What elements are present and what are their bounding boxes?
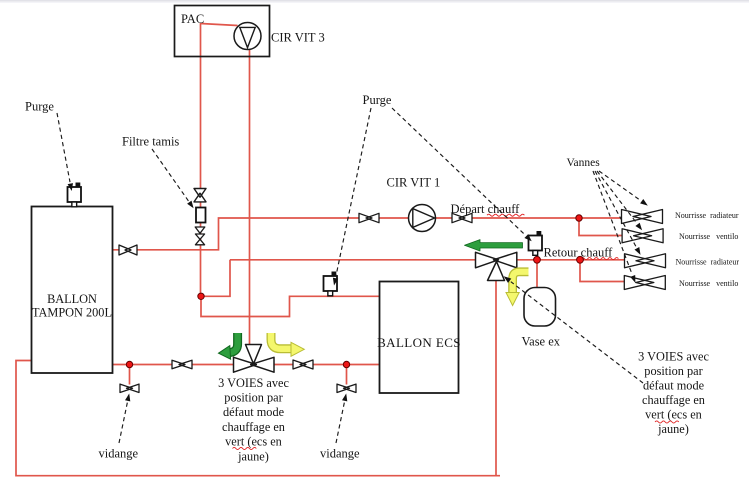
leader vannes 2: [597, 171, 642, 230]
svg-text:3 VOIES avec: 3 VOIES avec: [218, 376, 289, 390]
PAC box: [175, 6, 270, 57]
svg-text:Nourrisse ventilo: Nourrisse ventilo: [679, 232, 738, 241]
junction dot depart line: [576, 215, 582, 221]
valve tank outlet: [119, 245, 137, 255]
junction dot before ECS: [343, 361, 349, 367]
right distribution valve 3: [625, 254, 666, 268]
tank BALLON TAMPON 200L: [32, 207, 113, 374]
svg-text:défaut mode: défaut mode: [643, 379, 705, 393]
green bent arrow on lower 3-way: [219, 333, 238, 359]
pump CIR VIT 3: [234, 23, 261, 50]
valve before pump CIR VIT 1: [359, 213, 379, 222]
svg-text:vert (ecs en: vert (ecs en: [645, 408, 702, 422]
svg-text:vert (ecs en: vert (ecs en: [225, 435, 282, 449]
svg-text:position par: position par: [224, 391, 282, 405]
right distribution valve 1: [622, 210, 663, 224]
purge device near ECS line: [324, 272, 338, 296]
wire: vase expansion drop: [536, 260, 538, 288]
svg-text:Vase ex: Vase ex: [522, 335, 561, 349]
wire: branch to Nourrisse ventilo 2: [580, 260, 624, 282]
leader purge middle to ECS-line purge: [333, 108, 371, 286]
green arrow (heating flow) on upper 3-way: [465, 240, 523, 251]
BALLON ECS tank: [380, 282, 459, 394]
svg-text:Nourrisse radiateur: Nourrisse radiateur: [675, 211, 739, 220]
leader vannes 4: [593, 171, 635, 283]
svg-text:Vannes: Vannes: [567, 157, 601, 169]
leader purge top-left: [57, 113, 73, 191]
svg-text:vidange: vidange: [320, 447, 360, 461]
valve depart chauff: [452, 213, 472, 222]
right distribution valve 4: [624, 276, 665, 290]
svg-text:3 VOIES avec: 3 VOIES avec: [638, 350, 709, 364]
leader vidange left: [119, 394, 130, 444]
svg-text:TAMPON 200L: TAMPON 200L: [32, 306, 112, 320]
vidange valve left: [120, 384, 139, 392]
wire: left pipe from PAC down through filter to node: [200, 23, 202, 296]
wire: vidange stub right: [346, 365, 348, 385]
svg-text:CIR VIT 1: CIR VIT 1: [387, 176, 441, 190]
svg-text:jaune): jaune): [237, 449, 269, 463]
wire: lower 3-way to BALLON ECS lower port: [274, 364, 380, 366]
svg-text:Nourrisse radiateur: Nourrisse radiateur: [676, 257, 740, 266]
text block 3 VOIES (bottom center): [218, 376, 289, 464]
yellow arrow (ecs) on upper 3-way: [506, 272, 529, 306]
vase expansion: [524, 288, 556, 327]
svg-text:chauffage en: chauffage en: [222, 420, 285, 434]
svg-text:jaune): jaune): [657, 422, 689, 436]
valve above filter: [194, 189, 206, 202]
svg-text:BALLON ECS: BALLON ECS: [377, 335, 461, 350]
wire: pump CIR VIT 3 down pipe to lower 3-way top: [249, 50, 251, 345]
leader vidange right: [336, 394, 347, 444]
yellow bent arrow on lower 3-way: [271, 333, 304, 356]
wire: retour chauff right segment: [517, 259, 625, 261]
wire: node to retour jog: [201, 260, 230, 297]
svg-text:Nourrisse ventilo: Nourrisse ventilo: [679, 279, 738, 288]
junction dot retour at purge: [534, 256, 541, 263]
svg-text:Purge: Purge: [25, 100, 54, 114]
wire: upper 3-way bottom drop to floor line: [495, 281, 497, 476]
spellcheck wavy under chauff: [487, 214, 524, 216]
svg-text:Purge: Purge: [363, 93, 392, 107]
svg-text:PAC: PAC: [181, 12, 204, 26]
valve tank bottom line: [172, 360, 192, 369]
filter (filtre tamis): [196, 208, 206, 223]
svg-text:CIR VIT 3: CIR VIT 3: [271, 31, 325, 45]
leader purge middle to retour purge: [392, 108, 532, 241]
upper 3-way valve (3 VOIES): [476, 252, 517, 280]
vidange valve right: [337, 384, 356, 392]
svg-text:position par: position par: [644, 364, 702, 378]
check valve below filter: [195, 227, 205, 245]
wire: node down and over to BALLON ECS upper port: [201, 296, 380, 316]
leader filtre tamis: [152, 149, 194, 208]
right distribution valve 2: [622, 229, 663, 243]
svg-text:Filtre tamis: Filtre tamis: [122, 135, 179, 149]
wire: tank outlet to depart chauff line: [113, 218, 622, 250]
wire: retour chauff left segment: [230, 259, 476, 261]
svg-text:BALLON: BALLON: [47, 292, 97, 306]
junction node left: [198, 293, 204, 299]
svg-text:défaut mode: défaut mode: [223, 405, 285, 419]
junction dot tank bottom: [126, 361, 132, 367]
wire: floor return loop to tank left: [16, 361, 500, 476]
text block 3 VOIES (right): [638, 350, 709, 437]
valve right of lower 3-way: [293, 360, 313, 369]
leader vannes 3: [595, 171, 641, 255]
svg-text:chauffage en: chauffage en: [642, 393, 705, 407]
lower 3-way valve (3 VOIES): [234, 345, 275, 373]
purge device on tank: [68, 183, 82, 207]
purge device near retour chauff: [529, 231, 543, 255]
wire: vidange stub left: [129, 365, 131, 385]
pump CIR VIT 1: [409, 205, 436, 232]
leader vannes 1: [599, 171, 648, 206]
wire: branch to Nourrisse ventilo 1: [579, 218, 622, 236]
wire: PAC internal horizontal to pump: [201, 24, 238, 26]
wire: tank bottom to lower 3-way: [113, 364, 234, 366]
junction dot retour right: [577, 256, 584, 263]
svg-text:vidange: vidange: [99, 447, 139, 461]
leader 3 voies right text to upper 3-way: [504, 276, 643, 383]
